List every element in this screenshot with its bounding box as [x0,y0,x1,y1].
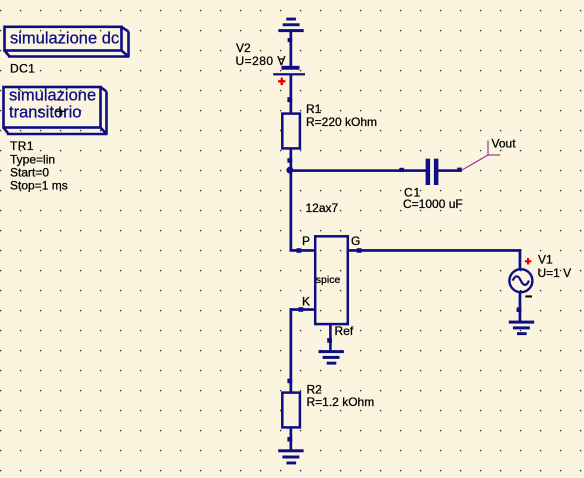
port tube Ref [327,338,332,343]
svg-text:simulazione: simulazione [9,87,96,105]
wire C1 right [438,169,461,172]
svg-text:simulazione dc: simulazione dc [10,30,119,48]
plus sign V2 [278,78,285,85]
ground bottom left [278,449,303,464]
wire P horizontal [290,249,315,252]
port V2 top [288,38,293,42]
wire Ref to ground [329,325,332,351]
ground tube Ref [319,350,344,365]
resistor R2 [282,393,300,428]
svg-text:Ref: Ref [335,324,354,338]
wire R2 to ground [290,427,293,450]
wire R1 to node [290,150,293,172]
plus sign V1 [525,258,531,264]
wire node to tube P [290,170,293,251]
port V1 bottom [517,307,522,312]
svg-text:V1: V1 [538,252,553,266]
svg-text:12ax7: 12ax7 [306,201,339,215]
wire ground to V2 [290,32,293,67]
ground V1 [509,321,534,336]
svg-text:Stop=1 ms: Stop=1 ms [10,178,68,192]
svg-text:G: G [351,234,360,248]
svg-text:P: P [302,234,310,248]
svg-text:U=280 ∀: U=280 ∀ [236,54,287,68]
svg-text:R=1.2 kOhm: R=1.2 kOhm [307,395,375,409]
svg-text:TR1: TR1 [10,139,34,153]
simulation box DC1 [5,27,130,57]
tube U1 body [315,236,348,324]
port C1 right [457,168,462,172]
sine wave V1 [513,276,529,285]
port R2 bottom [287,437,292,442]
port V2 bottom / R1 top [287,97,292,102]
svg-text:DC1: DC1 [10,61,35,75]
wire V1 corner down [519,249,522,270]
ac source V1 [509,269,532,292]
svg-text:U=1 V: U=1 V [538,266,572,280]
svg-text:R1: R1 [306,102,322,116]
svg-text:transitorio: transitorio [9,104,81,122]
simulation box TR1 [4,87,108,134]
svg-text:spice: spice [316,274,341,286]
svg-text:V2: V2 [236,41,251,55]
svg-text:Vout: Vout [492,136,517,150]
wire V2 to R1 [290,75,293,113]
resistor R1 [282,114,300,149]
minus sign V1 [525,295,532,297]
port C1 left [399,168,404,172]
ground top (inverted) [278,18,303,32]
svg-text:K: K [302,294,310,308]
cursor crosshair [56,106,65,116]
port tube K [298,307,303,312]
svg-text:R=220 kOhm: R=220 kOhm [306,115,377,129]
battery V2 [273,66,305,76]
port R1 bottom [287,158,292,163]
port tube G [357,248,362,253]
wire G to V1 [348,249,521,252]
svg-text:C=1000 uF: C=1000 uF [403,197,463,211]
node label Vout marker [462,141,501,171]
capacitor C1 [426,159,439,185]
wire K horizontal [290,308,315,311]
port tube P [297,248,302,253]
svg-text:Type=lin: Type=lin [10,152,55,166]
wire K down to R2 [290,308,293,392]
node junction [286,167,293,174]
wire V1 to ground [519,292,522,322]
wire node to C1 [289,169,426,172]
port R2 top [287,379,292,384]
